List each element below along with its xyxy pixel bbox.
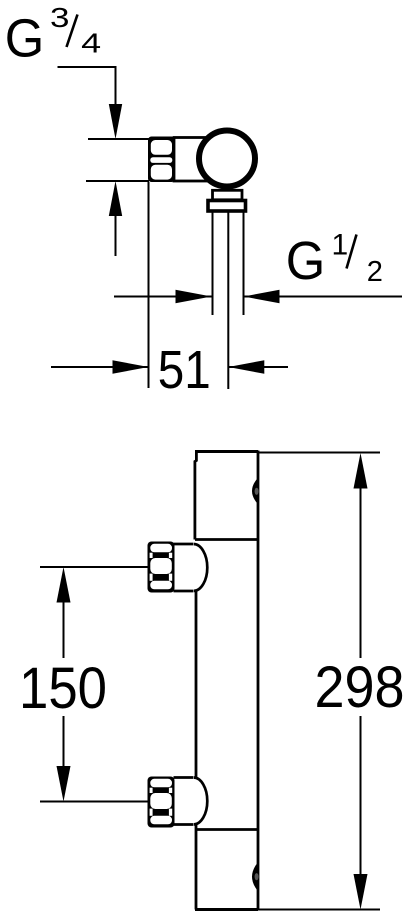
extension line 150 upper bbox=[40, 566, 148, 568]
label G 1/2 fraction slash bbox=[347, 235, 357, 269]
svg-text:4: 4 bbox=[81, 28, 101, 59]
extension line 150 lower bbox=[40, 801, 148, 803]
dimension 298 line lower part bbox=[360, 716, 362, 874]
shower pipe center line bbox=[227, 212, 229, 389]
dimension 150 arrow down bbox=[57, 766, 71, 802]
dimension 150 arrow up bbox=[57, 567, 71, 603]
hex nut (top view) outer bbox=[148, 137, 175, 183]
pipe OD dimension line right (G 1/2 leader) bbox=[244, 296, 403, 298]
svg-text:2: 2 bbox=[367, 256, 383, 288]
dimension 150 line lower part bbox=[63, 716, 65, 767]
svg-text:150: 150 bbox=[19, 656, 107, 721]
leader tail below arrow bbox=[115, 216, 117, 256]
svg-text:3: 3 bbox=[50, 2, 70, 33]
dimension 298 arrow up bbox=[354, 453, 368, 489]
leader line from G 3/4 bbox=[58, 67, 116, 104]
lower hex nut middle flat bbox=[150, 793, 172, 809]
pipe OD dimension line left bbox=[114, 296, 212, 298]
bar bottom edge bbox=[195, 908, 258, 911]
lower union dome bbox=[194, 778, 208, 825]
bar left edge middle segment bbox=[195, 591, 198, 778]
label G 3/4 fraction slash bbox=[67, 15, 78, 48]
knob neck collar lower bbox=[208, 201, 246, 212]
dimension 51 arrow left-pointing bbox=[228, 360, 264, 374]
upper union dome bbox=[194, 544, 208, 591]
extension line 298 top bbox=[258, 452, 380, 454]
bar right edge bbox=[257, 451, 260, 911]
pipe OD arrow pointing left bbox=[244, 290, 280, 304]
dimension 51 line right bbox=[228, 366, 288, 368]
dimension 298 arrow down bbox=[354, 874, 368, 910]
shower pipe left edge bbox=[212, 212, 214, 315]
hex nut (top view) lower flat bbox=[151, 165, 172, 180]
upper hex nut top flat bbox=[150, 544, 172, 553]
arrow up to nut bottom bbox=[109, 181, 122, 216]
body joint line lower (across bar) bbox=[195, 828, 258, 831]
svg-text:298: 298 bbox=[315, 655, 405, 720]
upper hex nut chamfer slots bbox=[150, 553, 153, 558]
lower hex nut top flat bbox=[150, 779, 172, 788]
body joint line upper (across bar) bbox=[195, 538, 258, 541]
extension line 51 left (from nut face) bbox=[148, 182, 150, 388]
dimension 298 line upper part bbox=[360, 488, 362, 658]
lower hex nut chamfer slots bbox=[150, 788, 153, 793]
upper hex nut outer bbox=[148, 542, 175, 593]
control knob circle bbox=[199, 131, 255, 187]
upper union flange bottom line bbox=[174, 590, 194, 593]
extension line nut top bbox=[88, 138, 149, 140]
upper union flange top line bbox=[174, 543, 194, 546]
svg-text:G: G bbox=[5, 9, 45, 69]
lower hex nut outer bbox=[148, 777, 175, 828]
bar top edge bbox=[195, 450, 258, 453]
svg-text:G: G bbox=[286, 231, 326, 291]
knob neck collar upper bbox=[213, 190, 243, 200]
lower union flange bottom line bbox=[174, 823, 194, 826]
hex nut (top view) upper flat bbox=[151, 140, 172, 155]
hex nut (top view) middle chamfer band bbox=[150, 157, 172, 163]
leader arrow down to nut top bbox=[109, 104, 122, 139]
lower hex nut bottom flat bbox=[150, 816, 172, 825]
extension line 298 bottom bbox=[258, 909, 380, 911]
upper hex nut bottom flat bbox=[150, 581, 172, 590]
upper hex nut middle flat bbox=[150, 558, 172, 574]
bar left edge bottom segment bbox=[195, 825, 198, 910]
lower union flange top line bbox=[174, 776, 194, 779]
dimension 150 line upper part bbox=[63, 602, 65, 658]
valve body (top view) bbox=[174, 138, 210, 182]
bar left edge top cap segment bbox=[195, 451, 197, 540]
shower pipe right edge bbox=[243, 212, 245, 315]
svg-text:51: 51 bbox=[158, 340, 211, 400]
extension line nut bottom bbox=[86, 180, 149, 182]
dimension 51 line left bbox=[51, 366, 149, 368]
dimension 51 arrow right-pointing bbox=[113, 360, 149, 374]
screw mark upper on right edge bbox=[252, 478, 258, 504]
svg-text:1: 1 bbox=[332, 229, 349, 262]
screw mark lower on right edge bbox=[252, 863, 258, 892]
pipe OD arrow pointing right bbox=[176, 290, 212, 304]
